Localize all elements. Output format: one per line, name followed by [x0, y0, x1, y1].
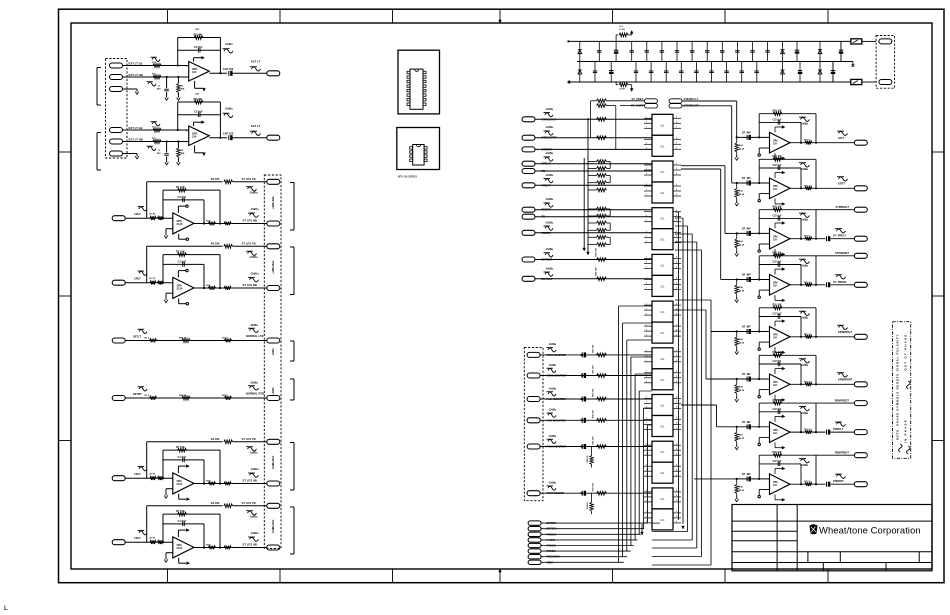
svg-text:-10dBu: -10dBu [250, 382, 259, 385]
svg-text:U2L: U2L [660, 312, 665, 314]
svg-text:R04 1K: R04 1K [586, 455, 589, 463]
svg-text:-10dBu: -10dBu [548, 482, 557, 485]
svg-text:+24Bu: +24Bu [272, 348, 275, 356]
svg-text:-10dBu: -10dBu [545, 174, 554, 177]
svg-text:R31 10: R31 10 [804, 140, 812, 142]
svg-text:DF_INF: DF_INF [742, 326, 751, 329]
svg-text:DF_INF: DF_INF [742, 177, 751, 180]
svg-text:C1 8pF: C1 8pF [178, 519, 187, 523]
svg-text:R2 10: R2 10 [222, 395, 229, 397]
svg-text:1K 1K: 1K 1K [149, 214, 156, 216]
svg-text:ST LFS HB: ST LFS HB [243, 218, 257, 222]
svg-text:-10dBu: -10dBu [548, 435, 557, 438]
svg-text:STPREDLT: STPREDLT [836, 205, 850, 209]
svg-text:R2 10: R2 10 [222, 338, 229, 340]
svg-text:2134: 2134 [177, 546, 183, 550]
svg-text:R7 10K: R7 10K [176, 185, 185, 189]
svg-text:-10dBu: -10dBu [250, 468, 259, 471]
svg-text:U2L: U2L [660, 193, 665, 195]
svg-text:DF_INF: DF_INF [742, 132, 751, 135]
svg-text:PGM MON/TB: PGM MON/TB [547, 491, 565, 495]
svg-text:OPA: OPA [773, 381, 778, 384]
svg-text:U2L: U2L [660, 473, 665, 475]
svg-text:R30 10K: R30 10K [773, 452, 782, 454]
svg-text:EXT LT HB: EXT LT HB [129, 138, 143, 142]
svg-text:DF_INF: DF_INF [742, 274, 751, 277]
svg-text:CRLT: CRLT [134, 277, 141, 281]
svg-text:C22 8pF: C22 8pF [773, 461, 783, 463]
svg-text:R8 10K: R8 10K [194, 33, 203, 37]
svg-text:EXT LT: EXT LT [251, 124, 261, 128]
svg-text:R4 10K: R4 10K [211, 177, 220, 181]
svg-text:U2L: U2L [660, 125, 665, 127]
svg-text:R31 10: R31 10 [804, 282, 812, 284]
svg-text:U2L: U2L [660, 219, 665, 221]
svg-text:-10dBu: -10dBu [800, 464, 809, 467]
svg-text:CAP 220: CAP 220 [223, 132, 234, 136]
svg-text:-: - [186, 77, 187, 81]
svg-text:10K: 10K [195, 94, 199, 96]
svg-text:45.3K: 45.3K [739, 389, 745, 392]
svg-text:KRNPRDLT: KRNPRDLT [838, 330, 852, 334]
svg-text:-10dBu: -10dBu [250, 532, 259, 535]
svg-text:R8 10K: R8 10K [194, 97, 203, 101]
svg-text:PGM MONITOR: PGM MONITOR [547, 353, 567, 357]
svg-text:CRLT: CRLT [134, 536, 141, 540]
svg-text:U2L: U2L [660, 520, 665, 522]
svg-text:-10dBu: -10dBu [800, 168, 809, 171]
svg-text:KRNPRDRT: KRNPRDRT [838, 378, 853, 382]
svg-text:RENPREDT: RENPREDT [835, 399, 850, 403]
svg-text:U2L: U2L [660, 333, 665, 335]
svg-text:U2L: U2L [660, 380, 665, 382]
svg-text:2134: 2134 [177, 482, 183, 486]
svg-text:U2L: U2L [660, 240, 665, 242]
svg-text:R30 10K: R30 10K [773, 253, 782, 255]
svg-text:R4 10K: R4 10K [211, 242, 220, 246]
svg-text:R7 10K: R7 10K [176, 509, 185, 513]
svg-text:CRLT: CRLT [134, 212, 141, 216]
svg-text:U2L: U2L [660, 146, 665, 148]
svg-text:EXT LT LB: EXT LT LB [129, 126, 143, 130]
svg-text:R7 10K: R7 10K [176, 445, 185, 449]
svg-text:40K: 40K [181, 152, 185, 155]
svg-text:R7 10K: R7 10K [176, 250, 185, 254]
svg-text:R31 10: R31 10 [804, 481, 812, 483]
svg-text:EXT LT: EXT LT [251, 60, 261, 64]
svg-text:2134: 2134 [177, 287, 183, 291]
svg-text:OPA: OPA [773, 235, 778, 238]
svg-text:IN PHASE: IN PHASE [903, 419, 907, 443]
svg-text:R40 10K: R40 10K [595, 247, 598, 256]
svg-text:NORMAL LTB: NORMAL LTB [246, 334, 264, 338]
svg-text:OPA: OPA [773, 185, 778, 188]
svg-text:PGM MONITOR: PGM MONITOR [547, 445, 567, 449]
svg-text:-10dBu: -10dBu [249, 256, 258, 259]
svg-text:45.3K: 45.3K [739, 147, 745, 150]
svg-text:C1 8pF: C1 8pF [178, 260, 187, 264]
svg-text:1K 1K: 1K 1K [149, 474, 156, 476]
svg-text:OUT OF PHASE: OUT OF PHASE [903, 333, 907, 370]
svg-text:-10dBu: -10dBu [250, 273, 259, 276]
svg-text:-10dBu: -10dBu [548, 387, 557, 390]
svg-text:R2 0: R2 0 [206, 285, 211, 287]
svg-text:C22 8pF: C22 8pF [773, 409, 783, 411]
svg-text:OPA: OPA [773, 139, 778, 142]
svg-text:45.3K: 45.3K [739, 489, 745, 492]
svg-text:CRLT: CRLT [134, 472, 141, 476]
svg-text:-10dBu: -10dBu [250, 324, 259, 327]
svg-text:2134: 2134 [177, 222, 183, 226]
svg-text:R30 10K: R30 10K [773, 111, 782, 113]
svg-text:Wheat/tone Corporation: Wheat/tone Corporation [819, 525, 921, 536]
svg-text:DF_INF: DF_INF [742, 228, 751, 231]
svg-text:-10dBu: -10dBu [225, 108, 234, 111]
svg-text:C3 8pF: C3 8pF [194, 110, 203, 114]
svg-text:OPA: OPA [773, 429, 778, 432]
svg-text:U2L: U2L [660, 286, 665, 288]
svg-text:C22 8pF: C22 8pF [773, 119, 783, 121]
svg-text:10K: 10K [195, 29, 199, 31]
svg-text:ST_PRELT: ST_PRELT [833, 234, 846, 238]
svg-text:-10dBu: -10dBu [250, 208, 259, 211]
svg-text:R44 10: R44 10 [179, 394, 187, 397]
svg-text:CAP 220: CAP 220 [223, 67, 234, 71]
svg-text:R2 0: R2 0 [206, 221, 211, 223]
svg-text:-10dBu: -10dBu [800, 265, 809, 268]
svg-text:U2L: U2L [660, 172, 665, 174]
svg-text:-10dBu: -10dBu [800, 122, 809, 125]
svg-text:DETLT: DETLT [133, 334, 142, 338]
svg-text:-10dBu BAL: -10dBu BAL [272, 519, 275, 534]
svg-text:45.3K: 45.3K [739, 193, 745, 196]
svg-text:-10dBu: -10dBu [545, 248, 554, 251]
svg-text:-10dBu BAL: -10dBu BAL [272, 455, 275, 470]
svg-text:R02 10K: R02 10K [593, 365, 595, 374]
svg-text:R4 10K: R4 10K [211, 501, 220, 505]
svg-text:R1 0: R1 0 [145, 338, 150, 340]
svg-text:R02 10K: R02 10K [593, 482, 595, 491]
svg-text:ST LFS TB: ST LFS TB [242, 437, 256, 441]
svg-text:-10dBu: -10dBu [800, 364, 809, 367]
svg-text:R2 0: R2 0 [206, 545, 211, 547]
svg-text:R02 10K: R02 10K [593, 388, 595, 397]
svg-text:U2L: U2L [660, 499, 665, 501]
svg-text:R02 10K: R02 10K [593, 344, 595, 353]
svg-text:+: + [186, 64, 188, 68]
svg-text:R31 10: R31 10 [804, 429, 812, 431]
svg-text:MON MONITOR: MON MONITOR [547, 374, 567, 378]
svg-text:-10dBu: -10dBu [545, 198, 554, 201]
svg-text:MTA 100 SERIES: MTA 100 SERIES [398, 176, 417, 179]
svg-text:ST_PRERT: ST_PRERT [833, 280, 847, 284]
svg-text:DF_INF: DF_INF [742, 373, 751, 376]
svg-text:+4dBu BAL: +4dBu BAL [272, 195, 275, 209]
svg-text:PBNPREDT: PBNPREDT [835, 451, 850, 455]
svg-text:R02 10K: R02 10K [593, 410, 595, 419]
svg-text:EXT LT HB: EXT LT HB [129, 73, 143, 77]
svg-text:OPA: OPA [773, 282, 778, 285]
svg-text:-10dBu: -10dBu [225, 43, 234, 46]
svg-text:U2L: U2L [660, 452, 665, 454]
svg-text:STRT: STRT [838, 182, 845, 186]
svg-text:C22 8pF: C22 8pF [773, 165, 783, 167]
svg-text:-10dBu: -10dBu [548, 364, 557, 367]
svg-text:-10dBu: -10dBu [249, 191, 258, 194]
svg-text:-10dBu: -10dBu [545, 108, 554, 111]
svg-text:R30 10K: R30 10K [773, 305, 782, 307]
svg-text:R2 0: R2 0 [206, 481, 211, 483]
svg-text:DF_INF: DF_INF [742, 421, 751, 424]
svg-text:R04 1K: R04 1K [586, 502, 589, 510]
svg-text:DF_INF: DF_INF [742, 473, 751, 476]
svg-text:C1 8pF: C1 8pF [178, 455, 187, 459]
svg-text:45.3K: 45.3K [739, 290, 745, 293]
svg-text:OPA: OPA [773, 334, 778, 337]
svg-text:EXT LT LB: EXT LT LB [129, 62, 143, 66]
svg-text:ST LFS HB: ST LFS HB [243, 478, 257, 482]
svg-text:-10dBu: -10dBu [800, 317, 809, 320]
svg-text:-10dBu: -10dBu [545, 267, 554, 270]
svg-text:R30 10K: R30 10K [773, 352, 782, 354]
svg-text:R31 10: R31 10 [804, 236, 812, 238]
svg-text:ST_ONRT: ST_ONRT [631, 104, 644, 108]
svg-text:NORMAL RTB: NORMAL RTB [246, 392, 264, 396]
svg-text:U2L: U2L [660, 359, 665, 361]
svg-text:AUX MONITOR: AUX MONITOR [547, 397, 566, 401]
svg-text:U2L: U2L [660, 406, 665, 408]
svg-text:ST_ONLT: ST_ONLT [631, 97, 643, 101]
svg-text:R31 10: R31 10 [804, 381, 812, 383]
svg-text:R02 10K: R02 10K [593, 436, 595, 445]
svg-text:ST LFS HB: ST LFS HB [243, 542, 257, 546]
svg-text:C22 8pF: C22 8pF [773, 215, 783, 217]
svg-text:U2L: U2L [660, 265, 665, 267]
svg-text:ST LFS HB: ST LFS HB [243, 283, 257, 287]
svg-text:ST LFS TB: ST LFS TB [242, 177, 256, 181]
svg-text:OPA: OPA [773, 481, 778, 484]
svg-text:ST LFS TB: ST LFS TB [242, 242, 256, 246]
svg-text:DETRT: DETRT [133, 392, 142, 396]
svg-text:45.3K: 45.3K [739, 243, 745, 246]
svg-text:C22 8pF: C22 8pF [773, 262, 783, 264]
svg-text:C22 8pF: C22 8pF [773, 314, 783, 316]
svg-text:-10dBu: -10dBu [548, 409, 557, 412]
svg-text:C1 8pF: C1 8pF [178, 195, 187, 199]
svg-text:-10dBu: -10dBu [545, 221, 554, 224]
svg-text:NOTE: PHASE SYMBOLS DENOTE SIG: NOTE: PHASE SYMBOLS DENOTE SIGNAL POLARI… [895, 334, 899, 440]
svg-text:STEREO LT: STEREO LT [684, 97, 699, 101]
svg-text:R40 10K: R40 10K [595, 267, 598, 276]
svg-text:R30 10K: R30 10K [773, 400, 782, 402]
svg-text:1K 1K: 1K 1K [149, 278, 156, 280]
svg-text:-10dBu: -10dBu [249, 515, 258, 518]
svg-text:1K 1K: 1K 1K [149, 538, 156, 540]
svg-text:PREDLT: PREDLT [833, 427, 844, 431]
svg-text:+4dBu BAL: +4dBu BAL [272, 260, 275, 274]
svg-text:40K: 40K [181, 88, 185, 91]
svg-text:R31 10: R31 10 [804, 334, 812, 336]
svg-text:L2 F8: L2 F8 [619, 89, 625, 91]
svg-text:C3 8pF: C3 8pF [194, 45, 203, 49]
svg-text:STLT: STLT [838, 136, 845, 140]
svg-text:L: L [4, 606, 8, 612]
svg-text:L1 F8: L1 F8 [619, 29, 625, 31]
svg-text:-10dBu: -10dBu [249, 451, 258, 454]
svg-text:45.3K: 45.3K [739, 342, 745, 345]
svg-text:R30 10K: R30 10K [773, 156, 782, 158]
svg-text:+24Bu: +24Bu [272, 387, 275, 395]
svg-text:-10dBu: -10dBu [545, 126, 554, 129]
svg-text:-10dBu: -10dBu [800, 218, 809, 221]
svg-text:R1 0: R1 0 [145, 395, 150, 397]
svg-text:R31 10: R31 10 [804, 185, 812, 187]
svg-text:AUX MONITOR: AUX MONITOR [547, 418, 566, 422]
svg-text:R30 10K: R30 10K [773, 207, 782, 209]
svg-text:U2L: U2L [660, 427, 665, 429]
svg-text:-10dBu: -10dBu [545, 152, 554, 155]
svg-text:C22 8pF: C22 8pF [773, 361, 783, 363]
svg-text:STPREDRT: STPREDRT [835, 251, 849, 255]
svg-text:R44 10: R44 10 [179, 337, 187, 340]
svg-text:-10dBu: -10dBu [800, 412, 809, 415]
svg-text:-10dBu: -10dBu [548, 343, 557, 346]
svg-text:+: + [186, 129, 188, 133]
svg-text:134: 134 [192, 70, 197, 74]
svg-text:134: 134 [192, 135, 197, 139]
svg-text:45.3K: 45.3K [739, 437, 745, 440]
svg-text:R4 10K: R4 10K [211, 437, 220, 441]
svg-text:ST LFS TB: ST LFS TB [242, 501, 256, 505]
svg-text:-: - [186, 141, 187, 145]
svg-text:PREDRT: PREDRT [833, 479, 844, 483]
